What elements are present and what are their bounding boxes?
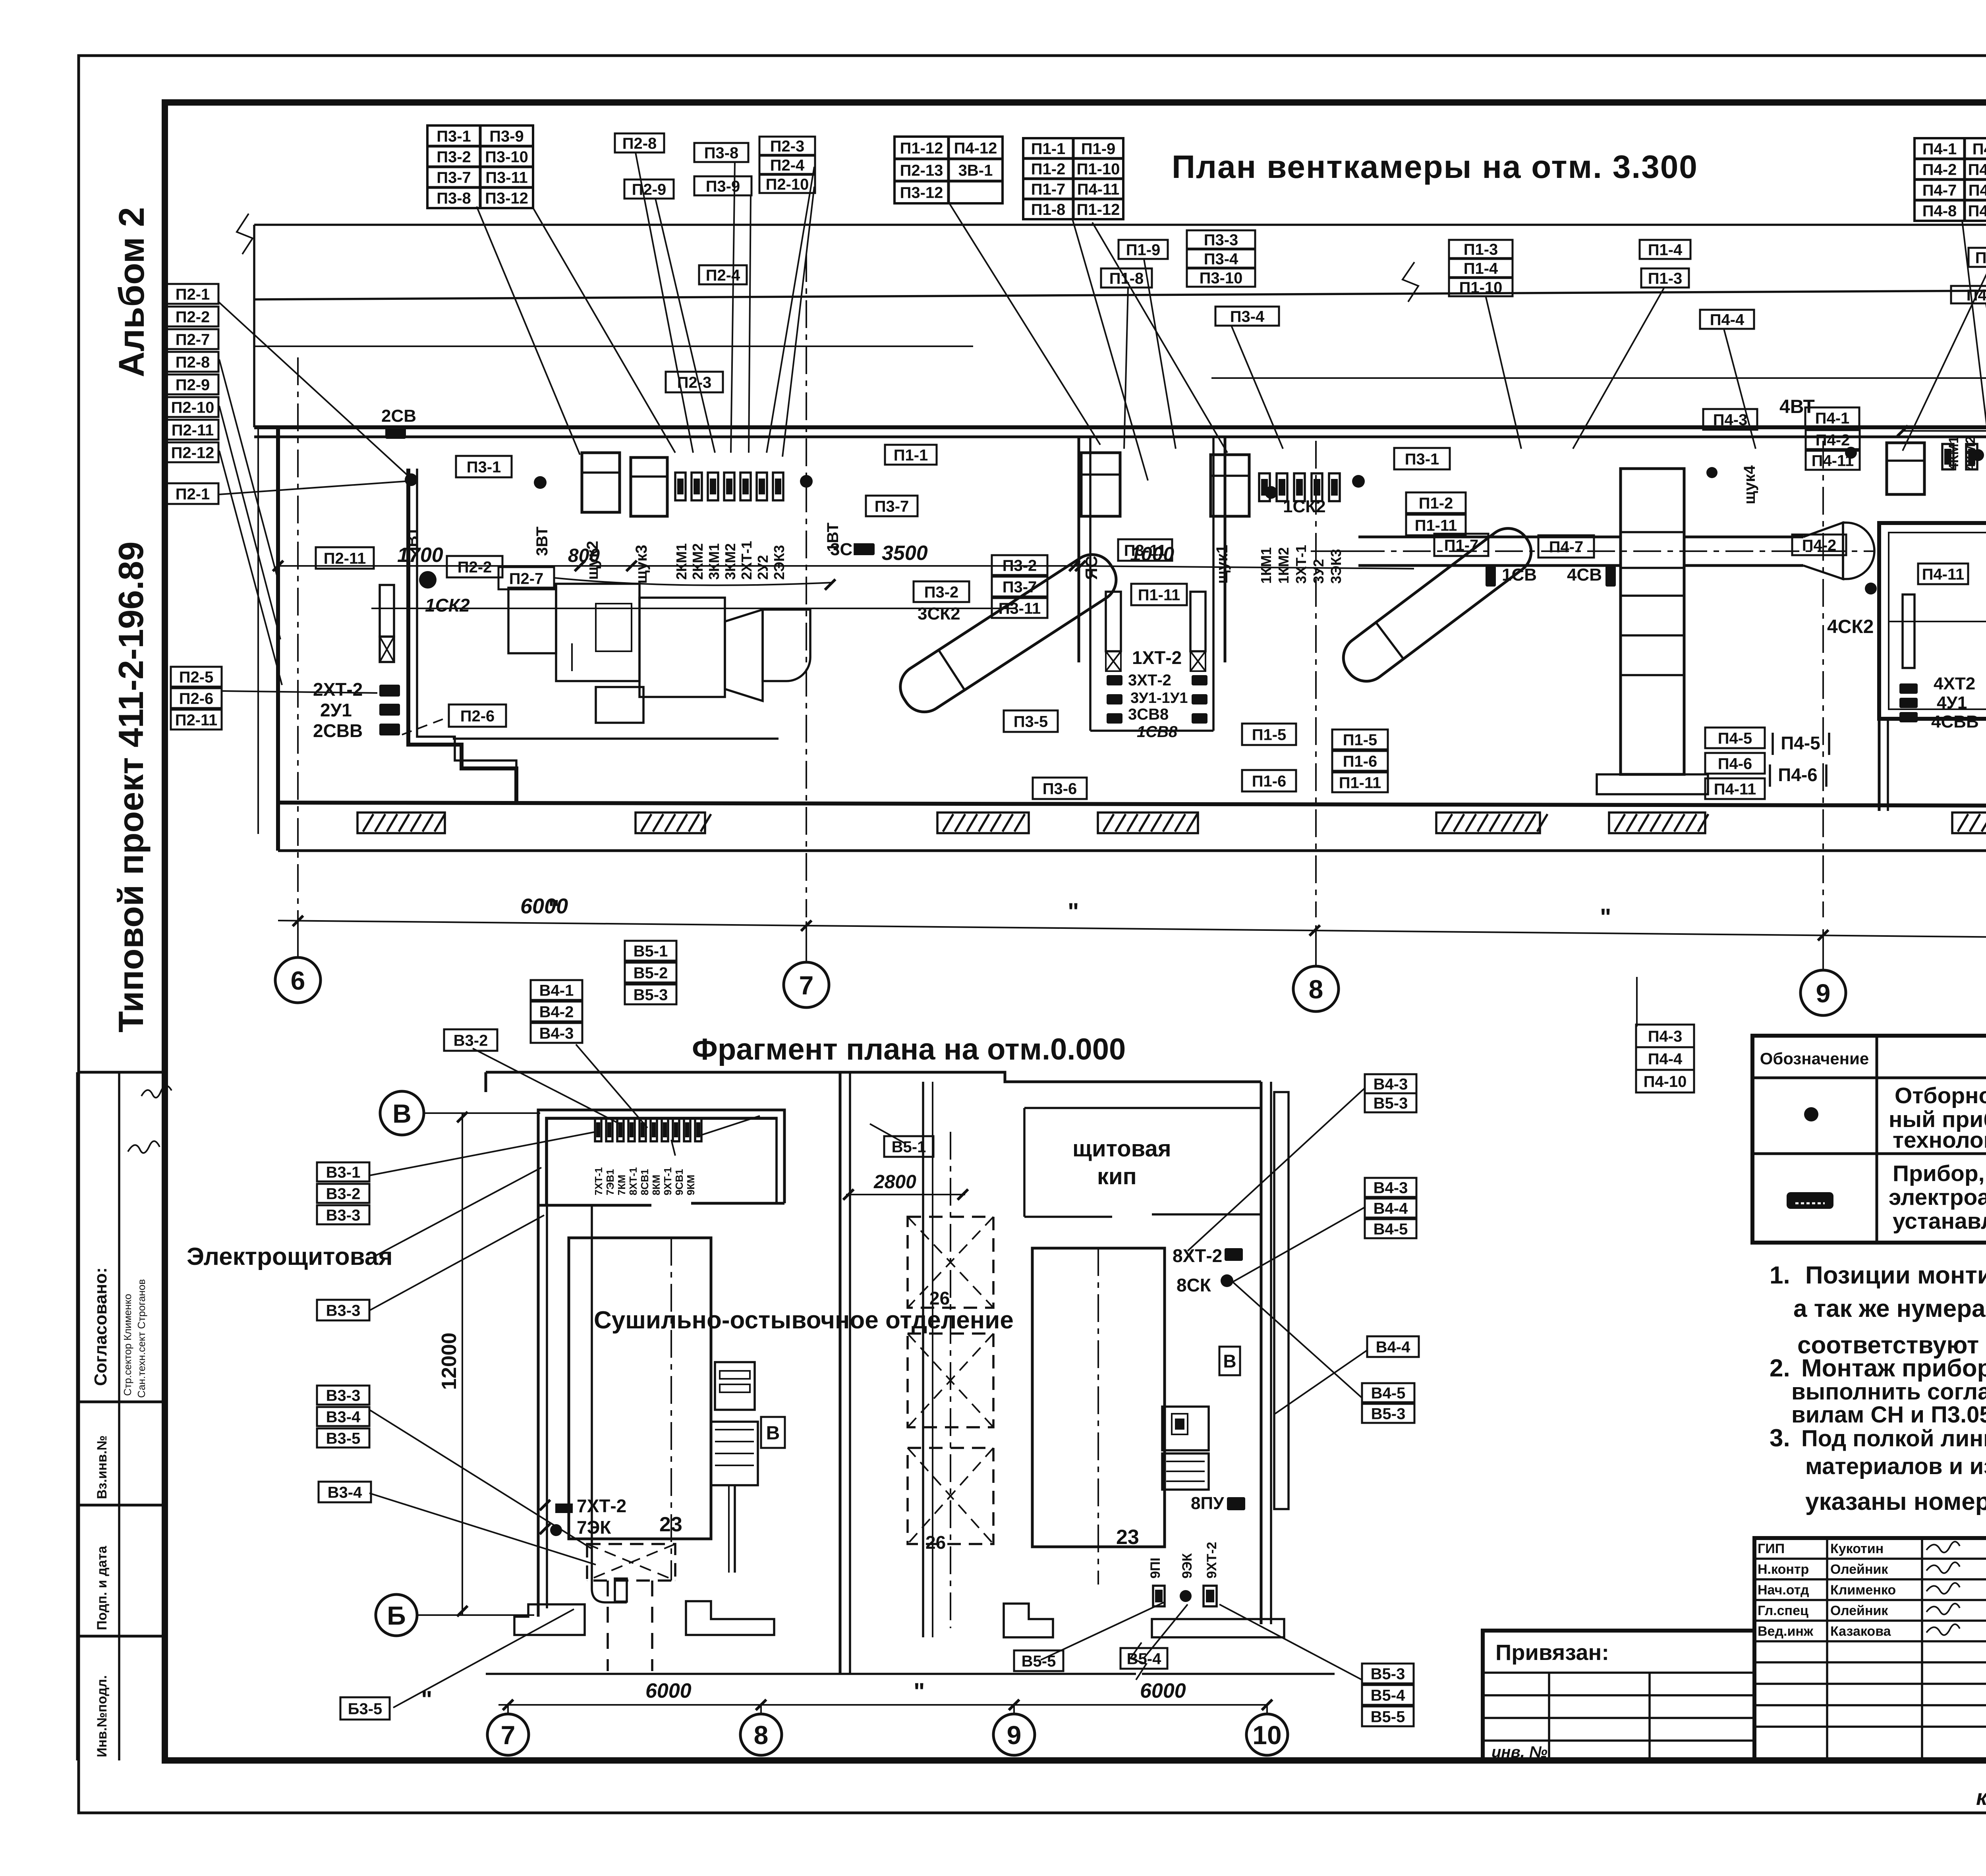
svg-text:2800: 2800 <box>873 1172 916 1193</box>
svg-text:П3-1: П3-1 <box>437 127 471 145</box>
svg-text:П1-5: П1-5 <box>1343 731 1377 749</box>
svg-text:8ПУ: 8ПУ <box>1191 1494 1224 1513</box>
svg-text:П3-12: П3-12 <box>485 189 528 207</box>
svg-text:электроаппаратура и другое: электроаппаратура и другое оборудование, <box>1889 1185 1986 1210</box>
svg-text:Позиции монтируемых приборов: Позиции монтируемых приборов и аппаратур… <box>1805 1262 1986 1289</box>
svg-text:П4-12: П4-12 <box>954 139 997 157</box>
svg-text:П2-9: П2-9 <box>632 181 667 198</box>
svg-text:Монтаж приборов и средств а: Монтаж приборов и средств автоматизации <box>1801 1355 1986 1382</box>
svg-text:В4-5: В4-5 <box>1374 1220 1408 1238</box>
svg-text:3ХТ-2: 3ХТ-2 <box>1128 672 1171 689</box>
svg-text:П1-8: П1-8 <box>1109 270 1144 287</box>
svg-text:П2-10: П2-10 <box>766 176 809 193</box>
svg-text:П2-4: П2-4 <box>770 156 805 174</box>
svg-text:9СВ1: 9СВ1 <box>673 1169 685 1195</box>
svg-text:П1-11: П1-11 <box>1138 586 1180 604</box>
svg-text:выполнить согласно строител: выполнить согласно строительным нормам и… <box>1791 1379 1986 1405</box>
svg-text:П4-11: П4-11 <box>1714 780 1756 798</box>
svg-text:8ХТ-2: 8ХТ-2 <box>1173 1245 1222 1266</box>
svg-text:2.: 2. <box>1770 1355 1790 1382</box>
svg-text:П4-3: П4-3 <box>1713 411 1748 428</box>
svg-text:щук4: щук4 <box>1741 465 1758 504</box>
svg-text:П4-4: П4-4 <box>1648 1050 1683 1068</box>
svg-text:В5-3: В5-3 <box>1374 1094 1408 1112</box>
svg-text:3КМ1: 3КМ1 <box>706 543 722 580</box>
svg-text:П4-11: П4-11 <box>1969 181 1986 199</box>
svg-text:технологическое оборудование: технологическое оборудование <box>1893 1127 1986 1153</box>
svg-text:П4-10: П4-10 <box>1644 1073 1687 1090</box>
svg-text:7: 7 <box>501 1720 516 1750</box>
svg-text:П2-8: П2-8 <box>176 353 210 371</box>
svg-text:П4-2: П4-2 <box>1816 431 1850 449</box>
svg-text:В4-5: В4-5 <box>1371 1384 1406 1402</box>
svg-text:В3-3: В3-3 <box>326 1387 361 1404</box>
svg-text:П4-7: П4-7 <box>1922 181 1957 199</box>
svg-text:23: 23 <box>1116 1526 1139 1549</box>
svg-text:7КМ: 7КМ <box>616 1175 628 1195</box>
svg-text:П2-11: П2-11 <box>175 711 218 729</box>
svg-text:В5-3: В5-3 <box>1371 1665 1405 1683</box>
svg-text:а так же нумерация и типы: а так же нумерация и типы кабелей и труб <box>1793 1295 1986 1322</box>
svg-text:Типовой проект 411-2-196.89: Типовой проект 411-2-196.89 <box>111 541 151 1033</box>
svg-text:П4-2: П4-2 <box>1922 161 1957 178</box>
svg-text:П3-7: П3-7 <box>1003 578 1037 596</box>
svg-text:3ХТ-1: 3ХТ-1 <box>1293 545 1309 584</box>
svg-text:материалов и изделий в пря: материалов и изделий в прямоугольниках <box>1805 1453 1986 1479</box>
svg-text:9ХТ-1: 9ХТ-1 <box>662 1167 674 1195</box>
svg-text:П3-11: П3-11 <box>1124 542 1167 559</box>
svg-text:Сан.техн.сект Строганов: Сан.техн.сект Строганов <box>135 1279 147 1398</box>
svg-text:6: 6 <box>291 966 305 995</box>
svg-text:П3-1: П3-1 <box>1405 450 1439 468</box>
svg-text:П2-12: П2-12 <box>171 444 214 461</box>
svg-text:П3-1: П3-1 <box>467 458 501 476</box>
svg-text:указаны номера труб и кабел: указаны номера труб и кабелей. <box>1805 1488 1986 1515</box>
svg-text:1СВ8: 1СВ8 <box>1137 723 1178 741</box>
svg-text:П4-7: П4-7 <box>1549 538 1584 556</box>
svg-text:6000: 6000 <box>520 894 568 918</box>
svg-text:4ХТ2: 4ХТ2 <box>1934 674 1975 693</box>
svg-text:В4-3: В4-3 <box>1374 1179 1408 1197</box>
svg-text:П3-10: П3-10 <box>485 148 528 166</box>
svg-text:П3-2: П3-2 <box>924 583 959 601</box>
svg-text:26: 26 <box>925 1532 946 1553</box>
svg-text:8: 8 <box>754 1720 769 1750</box>
svg-text:В5-4: В5-4 <box>1127 1650 1161 1668</box>
svg-text:1КМ2: 1КМ2 <box>1275 547 1292 584</box>
svg-text:В5-4: В5-4 <box>1371 1687 1405 1704</box>
svg-text:П4-4: П4-4 <box>1710 311 1745 328</box>
svg-text:3СК2: 3СК2 <box>918 604 960 623</box>
svg-text:В5-5: В5-5 <box>1371 1708 1405 1725</box>
svg-text:П1-10: П1-10 <box>1077 160 1120 178</box>
svg-text:П3-2: П3-2 <box>1003 557 1037 574</box>
svg-text:П4-8: П4-8 <box>1975 249 1986 266</box>
svg-text:3ВТ: 3ВТ <box>533 527 551 556</box>
svg-text:П3-3: П3-3 <box>1204 231 1238 249</box>
svg-text:П3-9: П3-9 <box>489 127 524 145</box>
svg-text:В3-5: В3-5 <box>326 1430 361 1447</box>
svg-text:П3-2: П3-2 <box>437 148 471 166</box>
svg-text:": " <box>914 1678 925 1705</box>
svg-text:П3-7: П3-7 <box>437 169 471 186</box>
svg-text:9ЭК: 9ЭК <box>1180 1553 1195 1579</box>
svg-text:9: 9 <box>1007 1720 1022 1750</box>
svg-text:П3-7: П3-7 <box>875 498 909 515</box>
svg-text:В3-4: В3-4 <box>328 1484 362 1501</box>
svg-text:П1-11: П1-11 <box>1415 517 1457 534</box>
svg-text:2У2: 2У2 <box>755 555 771 580</box>
svg-text:П1-2: П1-2 <box>1031 160 1066 178</box>
svg-text:П4-6: П4-6 <box>1718 755 1752 772</box>
svg-text:В3-3: В3-3 <box>326 1206 361 1224</box>
svg-text:щитовая: щитовая <box>1072 1136 1171 1162</box>
svg-text:1СВ: 1СВ <box>1502 565 1537 585</box>
svg-text:Нач.отд: Нач.отд <box>1758 1583 1809 1598</box>
svg-text:устанавливаемое вне щита.: устанавливаемое вне щита. <box>1893 1208 1986 1234</box>
svg-text:1СК2: 1СК2 <box>425 595 470 616</box>
svg-text:Вед.инж: Вед.инж <box>1758 1624 1814 1639</box>
svg-text:П2-10: П2-10 <box>171 399 214 416</box>
svg-text:Вз.инв.№: Вз.инв.№ <box>95 1435 110 1499</box>
svg-text:Б: Б <box>387 1601 406 1630</box>
svg-text:П2-6: П2-6 <box>179 690 214 707</box>
svg-text:П3-6: П3-6 <box>1043 780 1077 797</box>
svg-text:П1-3: П1-3 <box>1464 241 1498 258</box>
svg-text:П2-5: П2-5 <box>179 668 214 686</box>
svg-text:П2-2: П2-2 <box>176 308 210 326</box>
svg-text:Обозначение: Обозначение <box>1760 1049 1869 1068</box>
svg-text:П1-10: П1-10 <box>1459 279 1503 296</box>
svg-text:П4-12: П4-12 <box>1968 202 1986 220</box>
svg-text:7: 7 <box>799 971 814 1000</box>
svg-text:П2-2: П2-2 <box>458 558 492 576</box>
svg-text:П2-8: П2-8 <box>622 135 657 152</box>
svg-text:3КМ2: 3КМ2 <box>722 543 738 580</box>
svg-text:Привязан:: Привязан: <box>1495 1640 1609 1665</box>
svg-text:4СК2: 4СК2 <box>1827 616 1874 637</box>
svg-text:8СК: 8СК <box>1177 1275 1211 1295</box>
svg-text:П3-8: П3-8 <box>437 189 471 207</box>
svg-text:Альбом 2: Альбом 2 <box>112 207 152 377</box>
svg-text:В4-1: В4-1 <box>539 982 574 999</box>
svg-text:4СВ: 4СВ <box>1567 565 1602 585</box>
svg-text:П4-5: П4-5 <box>1781 733 1820 753</box>
svg-text:3.: 3. <box>1770 1424 1790 1452</box>
svg-text:В5-1: В5-1 <box>892 1138 926 1156</box>
svg-text:Н.контр: Н.контр <box>1758 1562 1809 1577</box>
svg-text:1СК2: 1СК2 <box>1283 497 1326 516</box>
svg-text:3СВ8: 3СВ8 <box>1128 706 1169 723</box>
svg-text:2ЭК3: 2ЭК3 <box>771 545 787 580</box>
svg-text:П1-5: П1-5 <box>1252 726 1287 743</box>
svg-text:П4-11: П4-11 <box>1077 181 1120 198</box>
svg-text:3500: 3500 <box>882 542 928 565</box>
svg-text:ГИП: ГИП <box>1758 1541 1785 1556</box>
svg-text:Инв.№подл.: Инв.№подл. <box>95 1675 110 1757</box>
svg-text:вилам СН и П3.05.07-85 г: вилам СН и П3.05.07-85 госстроя СССР. <box>1791 1402 1986 1428</box>
svg-text:8: 8 <box>1309 975 1323 1004</box>
svg-text:П1-3: П1-3 <box>1648 270 1683 287</box>
svg-text:П4-5: П4-5 <box>1718 730 1752 747</box>
svg-text:П2-1: П2-1 <box>176 286 210 303</box>
svg-text:План венткамеры на отм. 3.300: План венткамеры на отм. 3.300 <box>1172 149 1698 185</box>
svg-text:В3-3: В3-3 <box>326 1302 361 1319</box>
svg-text:7ЭВ1: 7ЭВ1 <box>604 1169 616 1195</box>
svg-text:3В-1: 3В-1 <box>958 162 993 179</box>
svg-text:6000: 6000 <box>645 1679 692 1702</box>
svg-text:П1-8: П1-8 <box>1031 201 1066 218</box>
svg-text:23: 23 <box>659 1513 682 1536</box>
svg-text:В4-3: В4-3 <box>1374 1075 1408 1093</box>
svg-text:Подп. и дата: Подп. и дата <box>95 1546 110 1630</box>
svg-text:Прибор, регулятор, исполните: Прибор, регулятор, исполнительный механи… <box>1893 1161 1986 1186</box>
svg-text:Электрощитовая: Электрощитовая <box>187 1243 393 1270</box>
svg-text:П3-8: П3-8 <box>704 144 739 162</box>
svg-text:П1-1: П1-1 <box>894 446 928 464</box>
svg-text:П4-3: П4-3 <box>1648 1028 1683 1045</box>
svg-text:": " <box>1068 898 1079 925</box>
svg-text:В3-2: В3-2 <box>326 1185 361 1202</box>
svg-text:9ПІ: 9ПІ <box>1148 1558 1163 1579</box>
svg-text:П1-12: П1-12 <box>900 139 943 157</box>
svg-text:В4-4: В4-4 <box>1374 1200 1408 1217</box>
svg-text:П3-4: П3-4 <box>1230 308 1265 325</box>
svg-text:П1-9: П1-9 <box>1081 140 1116 158</box>
svg-text:9ХТ-2: 9ХТ-2 <box>1204 1542 1219 1579</box>
svg-text:П4-1: П4-1 <box>1922 140 1957 158</box>
svg-text:В5-2: В5-2 <box>634 964 668 982</box>
svg-text:П4-10: П4-10 <box>1968 161 1986 178</box>
svg-text:9КМ: 9КМ <box>685 1175 697 1195</box>
svg-text:8СВ1: 8СВ1 <box>639 1169 651 1195</box>
svg-text:П2-11: П2-11 <box>324 550 366 567</box>
svg-text:Б3-5: Б3-5 <box>348 1700 383 1718</box>
svg-text:2КМ1: 2КМ1 <box>673 543 690 580</box>
svg-text:3ЭК3: 3ЭК3 <box>1328 549 1344 584</box>
svg-text:П2-7: П2-7 <box>509 570 544 587</box>
svg-text:3У1-1У1: 3У1-1У1 <box>1130 690 1188 706</box>
svg-text:12000: 12000 <box>438 1332 461 1390</box>
svg-text:В3-1: В3-1 <box>326 1164 361 1181</box>
svg-text:П4-1: П4-1 <box>1815 409 1850 427</box>
svg-text:7ЭК: 7ЭК <box>577 1517 611 1538</box>
svg-text:В: В <box>1223 1351 1236 1372</box>
svg-text:П1-2: П1-2 <box>1419 494 1453 512</box>
svg-text:В5-3: В5-3 <box>1371 1405 1406 1422</box>
svg-text:1700: 1700 <box>397 544 443 567</box>
svg-text:В4-4: В4-4 <box>1376 1338 1410 1356</box>
svg-text:1КМ1: 1КМ1 <box>1258 547 1274 584</box>
svg-text:2СВВ: 2СВВ <box>313 720 363 741</box>
svg-text:П2-7: П2-7 <box>176 331 210 348</box>
svg-text:щук3: щук3 <box>633 545 650 584</box>
svg-text:П3-11: П3-11 <box>485 169 528 186</box>
svg-text:4СВВ: 4СВВ <box>1931 712 1979 731</box>
svg-text:1ХТ-2: 1ХТ-2 <box>1132 647 1182 668</box>
svg-text:копировал Краснава: копировал Краснава <box>1976 1785 1986 1810</box>
svg-text:П3-10: П3-10 <box>1200 269 1243 287</box>
svg-text:В3-4: В3-4 <box>326 1408 361 1426</box>
svg-text:П2-1: П2-1 <box>176 485 210 503</box>
svg-text:Казакова: Казакова <box>1830 1624 1891 1639</box>
svg-text:8КМ: 8КМ <box>650 1175 662 1195</box>
svg-text:Олейник: Олейник <box>1830 1562 1888 1577</box>
svg-text:Под полкой линии - выноски: Под полкой линии - выноски позиций монта… <box>1801 1426 1986 1451</box>
svg-text:П1-9: П1-9 <box>1126 241 1161 259</box>
svg-text:2КМ2: 2КМ2 <box>690 543 706 580</box>
svg-text:П4-11: П4-11 <box>1922 566 1965 583</box>
svg-text:800: 800 <box>568 545 600 566</box>
svg-text:6000: 6000 <box>1140 1679 1186 1702</box>
svg-text:4У1: 4У1 <box>1937 693 1967 712</box>
svg-text:П1-12: П1-12 <box>1077 201 1120 218</box>
svg-text:П2-6: П2-6 <box>460 707 495 725</box>
svg-text:П1-6: П1-6 <box>1252 772 1287 790</box>
svg-text:Олейник: Олейник <box>1830 1603 1888 1618</box>
svg-text:Отборное устройство, первичный: Отборное устройство, первичный измерител… <box>1895 1083 1986 1108</box>
svg-text:инв. №: инв. № <box>1491 1743 1547 1761</box>
svg-text:П1-4: П1-4 <box>1464 260 1498 277</box>
svg-text:В: В <box>392 1099 411 1128</box>
svg-text:3У2: 3У2 <box>1310 559 1327 584</box>
svg-text:Гл.спец: Гл.спец <box>1758 1603 1808 1618</box>
svg-text:П2-4: П2-4 <box>706 266 740 284</box>
svg-text:9: 9 <box>1816 979 1831 1008</box>
svg-text:Кукотин: Кукотин <box>1830 1541 1884 1556</box>
svg-text:2У1: 2У1 <box>320 700 352 720</box>
svg-text:Стр.сектор Клименко: Стр.сектор Клименко <box>122 1294 133 1396</box>
svg-text:П4-9: П4-9 <box>1972 140 1986 158</box>
svg-text:П2-13: П2-13 <box>900 162 943 179</box>
svg-text:В5-1: В5-1 <box>634 942 668 960</box>
svg-text:2СВ: 2СВ <box>381 406 416 426</box>
svg-text:1.: 1. <box>1770 1262 1790 1289</box>
svg-text:": " <box>1600 904 1611 930</box>
svg-text:П2-3: П2-3 <box>677 374 712 391</box>
svg-text:Фрагмент плана на отм.0.000: Фрагмент плана на отм.0.000 <box>692 1033 1126 1066</box>
svg-text:П1-4: П1-4 <box>1648 241 1683 259</box>
svg-text:8ХТ-1: 8ХТ-1 <box>627 1167 639 1195</box>
svg-text:В4-2: В4-2 <box>539 1003 574 1021</box>
svg-text:В4-3: В4-3 <box>539 1025 574 1042</box>
svg-text:П3-4: П3-4 <box>1204 250 1238 268</box>
svg-text:П2-11: П2-11 <box>172 421 214 439</box>
svg-text:В: В <box>766 1422 780 1444</box>
svg-text:П2-9: П2-9 <box>176 376 210 394</box>
svg-text:П1-6: П1-6 <box>1343 753 1377 770</box>
svg-text:7ХТ-2: 7ХТ-2 <box>577 1496 626 1516</box>
svg-text:кип: кип <box>1097 1164 1137 1189</box>
svg-text:2ХТ-1: 2ХТ-1 <box>738 541 755 580</box>
svg-text:П1-11: П1-11 <box>1339 774 1381 791</box>
svg-text:П3-12: П3-12 <box>900 184 943 201</box>
svg-text:П3-5: П3-5 <box>1014 713 1048 730</box>
svg-text:В5-3: В5-3 <box>634 986 668 1004</box>
svg-text:В3-2: В3-2 <box>454 1032 488 1049</box>
svg-text:П2-3: П2-3 <box>770 137 805 155</box>
svg-text:П1-7: П1-7 <box>1031 181 1066 198</box>
svg-text:П4-6: П4-6 <box>1778 764 1818 785</box>
svg-text:2ХТ-2: 2ХТ-2 <box>313 679 363 700</box>
svg-text:Клименко: Клименко <box>1830 1583 1896 1598</box>
svg-text:щук1: щук1 <box>1213 545 1231 584</box>
svg-text:10: 10 <box>1252 1720 1281 1750</box>
svg-text:П4-8: П4-8 <box>1922 202 1957 220</box>
svg-text:Согласовано:: Согласовано: <box>91 1267 110 1386</box>
svg-text:П1-1: П1-1 <box>1031 140 1066 158</box>
svg-text:7ХТ-1: 7ХТ-1 <box>593 1167 605 1195</box>
